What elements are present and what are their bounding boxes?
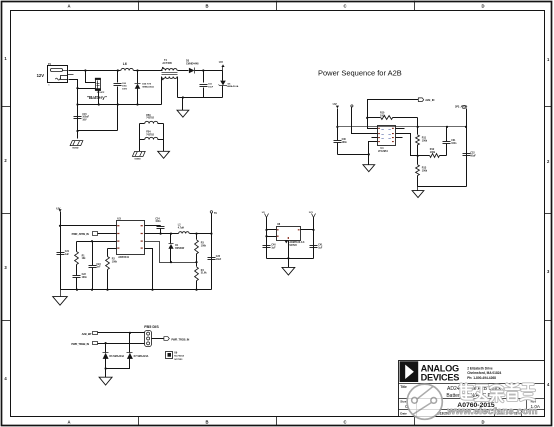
svg-text:100k: 100k bbox=[422, 170, 428, 173]
wire D7 drop bbox=[129, 333, 131, 353]
svg-text:DEVICES: DEVICES bbox=[421, 373, 460, 383]
svg-text:C: C bbox=[343, 419, 346, 424]
svg-text:Ph: 1-800-494-4268: Ph: 1-800-494-4268 bbox=[467, 376, 496, 380]
diode D1 bbox=[170, 234, 172, 244]
svg-text:742792: 742792 bbox=[146, 133, 154, 136]
svg-text:C15: C15 bbox=[82, 114, 87, 116]
svg-text:Size: Size bbox=[400, 400, 406, 404]
svg-text:742792: 742792 bbox=[146, 117, 154, 120]
wire LDO bottom rail bbox=[267, 258, 314, 260]
svg-text:PWR_TRGB_IN: PWR_TRGB_IN bbox=[71, 342, 89, 346]
svg-text:100k: 100k bbox=[112, 261, 118, 263]
ground U3 bbox=[60, 290, 62, 297]
diode D3 bbox=[189, 68, 195, 74]
svg-text:SOT23: SOT23 bbox=[289, 245, 297, 247]
node flag EN bbox=[351, 105, 353, 107]
wire pin3L stub bbox=[372, 137, 378, 139]
wire main rail pwrseq bbox=[338, 126, 467, 128]
svg-text:C41: C41 bbox=[318, 244, 323, 247]
capacitor C24 bbox=[160, 226, 162, 227]
svg-text:PWR_TRGB_IN: PWR_TRGB_IN bbox=[171, 337, 189, 341]
svg-text:ACT45B: ACT45B bbox=[162, 62, 172, 65]
svg-text:UV: UV bbox=[219, 60, 223, 64]
chassis ground 1 bbox=[70, 141, 83, 146]
svg-text:SOT353: SOT353 bbox=[174, 359, 183, 361]
wire T4 sec right down bbox=[177, 77, 179, 98]
svg-text:ADM7160-3.3: ADM7160-3.3 bbox=[289, 241, 305, 244]
resistor R10 bbox=[368, 117, 381, 119]
capacitor C61 bbox=[203, 71, 205, 83]
wire R10 down to rail bbox=[417, 118, 419, 129]
capacitor C60 bbox=[117, 71, 119, 83]
wire FB left bbox=[139, 124, 141, 140]
svg-text:100n: 100n bbox=[451, 143, 457, 145]
wire D6 to gnd bbox=[105, 359, 107, 378]
svg-text:C31: C31 bbox=[451, 140, 456, 142]
wire flag to U3 pin2 bbox=[98, 233, 117, 235]
svg-text:10uF: 10uF bbox=[216, 259, 222, 261]
svg-text:100n: 100n bbox=[342, 142, 348, 144]
diode D7 bbox=[127, 352, 133, 354]
svg-text:D6 SMAJ24A: D6 SMAJ24A bbox=[109, 355, 124, 358]
capacitor C41 bbox=[310, 245, 318, 247]
op-amp U3 buck regulator bbox=[117, 221, 145, 255]
wire pin3R stub bbox=[396, 137, 403, 139]
svg-text:LTC2954: LTC2954 bbox=[378, 150, 388, 153]
wire right rail bbox=[211, 214, 213, 290]
svg-text:1uF: 1uF bbox=[318, 247, 323, 249]
wire FB5 out bbox=[152, 338, 164, 340]
wire pin2R to node bbox=[396, 134, 418, 156]
svg-text:PWR_ATPB_IN: PWR_ATPB_IN bbox=[72, 232, 89, 236]
jumper FB5 header bbox=[145, 331, 152, 347]
op-amp U4 supervisor bbox=[378, 126, 396, 146]
svg-text:SGND: SGND bbox=[134, 159, 141, 161]
wire pin1R stub bbox=[396, 128, 405, 130]
svg-text:C21: C21 bbox=[65, 251, 70, 253]
wire input to U3 pin1 bbox=[61, 225, 117, 227]
wire gnd drop T4 bbox=[182, 98, 184, 111]
svg-text:100k: 100k bbox=[380, 114, 386, 117]
capacitor C31 bbox=[446, 127, 448, 142]
wire U8 out bbox=[301, 229, 314, 231]
wire flag2 to FB5 bbox=[98, 343, 145, 345]
ferrite FB3 bbox=[140, 123, 145, 125]
watermark chinese characters bbox=[460, 384, 534, 401]
wire U8 gnd pin bbox=[288, 241, 290, 268]
svg-text:C32: C32 bbox=[470, 153, 475, 155]
svg-text:C25: C25 bbox=[216, 256, 221, 258]
svg-text:L6: L6 bbox=[123, 62, 127, 66]
wire L2 to out bbox=[190, 233, 212, 235]
svg-text:3216FF: 3216FF bbox=[97, 92, 105, 94]
io flag A2B_IN bbox=[418, 98, 423, 102]
wire bottom rail U3 bbox=[61, 289, 212, 291]
resistor R2 bbox=[107, 249, 109, 257]
svg-text:ADP2441: ADP2441 bbox=[118, 256, 129, 259]
wire pin4L to gnd bbox=[369, 142, 378, 165]
title block frame bbox=[399, 361, 545, 417]
svg-text:D: D bbox=[481, 4, 484, 9]
inductor L2 bbox=[179, 232, 190, 234]
svg-text:100uF: 100uF bbox=[82, 117, 89, 119]
chassis ground 2 bbox=[132, 151, 145, 156]
wire lower return rail bbox=[178, 97, 223, 99]
resistor R1 bbox=[76, 242, 78, 252]
wire D6 drop bbox=[105, 344, 107, 353]
svg-text:100n: 100n bbox=[122, 86, 128, 88]
wire LDO left rail bbox=[266, 218, 268, 259]
ground pwrseq bottom bbox=[417, 187, 419, 191]
wire pin4R gnd bbox=[145, 249, 153, 290]
svg-text:Chelmsford, MA 01824: Chelmsford, MA 01824 bbox=[467, 371, 501, 375]
svg-text:A: A bbox=[67, 4, 70, 9]
capacitor C25 bbox=[208, 257, 216, 259]
connector P1 12V battery input bbox=[48, 66, 68, 83]
svg-text:12V: 12V bbox=[37, 73, 45, 78]
logo box U9 bbox=[166, 352, 173, 359]
svg-text:100n: 100n bbox=[82, 277, 88, 279]
svg-text:SGND: SGND bbox=[72, 148, 79, 150]
svg-text:C22: C22 bbox=[82, 274, 87, 276]
svg-text:B: B bbox=[205, 4, 208, 9]
wire T4 sec left to mid rail bbox=[161, 77, 163, 105]
resistor R4 bbox=[196, 263, 198, 267]
wire fb node bbox=[77, 241, 117, 243]
wire fuse to mid rail bbox=[98, 91, 100, 105]
svg-text:Date: Date bbox=[400, 411, 407, 415]
capacitor C15 bbox=[74, 116, 82, 118]
wire c60 bottom link bbox=[78, 130, 118, 132]
ground earth FB bbox=[158, 151, 170, 158]
ground earth T4 bbox=[177, 110, 189, 117]
svg-text:100n: 100n bbox=[155, 221, 161, 223]
svg-text:1uF: 1uF bbox=[271, 247, 276, 249]
svg-text:D24 TVS: D24 TVS bbox=[142, 83, 151, 86]
wire rail L6 to T4 bbox=[134, 70, 163, 72]
wire FB right bbox=[163, 124, 165, 140]
svg-text:D: D bbox=[481, 419, 484, 424]
svg-text:Power Sequence for A2B: Power Sequence for A2B bbox=[318, 69, 402, 78]
inductor L6 bbox=[121, 68, 133, 70]
watermark circle logo bbox=[407, 384, 442, 419]
svg-text:100k: 100k bbox=[201, 245, 207, 247]
diode D6 bbox=[103, 352, 109, 354]
svg-text:100k: 100k bbox=[422, 140, 428, 143]
svg-text:SMAJ5.0A: SMAJ5.0A bbox=[228, 85, 239, 88]
svg-text:31.6k: 31.6k bbox=[201, 273, 207, 275]
wire bottom rail pwrseq bbox=[418, 186, 467, 188]
wire D7 to gnd bbox=[106, 359, 130, 369]
svg-text:D7 SMAJ24A: D7 SMAJ24A bbox=[134, 355, 149, 358]
svg-text:5V: 5V bbox=[214, 212, 217, 215]
fuse F1 battery bbox=[86, 71, 96, 83]
op-amp U8 LDO bbox=[277, 227, 301, 241]
wire R2 to pin4 bbox=[108, 248, 117, 250]
wire LDO right rail bbox=[313, 218, 315, 259]
svg-text:100k: 100k bbox=[430, 151, 436, 154]
svg-text:1uF: 1uF bbox=[65, 254, 70, 256]
transformer T4 common-mode choke bbox=[162, 69, 178, 71]
svg-text:U3: U3 bbox=[117, 217, 121, 221]
ferrite FB4 bbox=[140, 139, 145, 141]
wire UV drop bbox=[337, 109, 339, 141]
resistor R12 bbox=[418, 155, 430, 157]
svg-text:A: A bbox=[67, 419, 70, 424]
wire P1 pin2 drop bbox=[69, 80, 78, 139]
svg-text:CMHD4448: CMHD4448 bbox=[186, 63, 199, 66]
capacitor C23 bbox=[92, 242, 94, 266]
logo Analog Devices bbox=[400, 361, 419, 382]
diode D5 zener bbox=[222, 71, 224, 81]
svg-text:B: B bbox=[205, 419, 208, 424]
svg-text:10uF: 10uF bbox=[470, 155, 476, 157]
capacitor C30 bbox=[334, 140, 342, 142]
ground FB5 bbox=[99, 377, 112, 385]
ground pwrseq left bbox=[363, 165, 375, 172]
diode D24 TVS bbox=[137, 71, 139, 84]
svg-text:www.elecfans.com: www.elecfans.com bbox=[446, 406, 537, 416]
svg-text:FB3: FB3 bbox=[146, 115, 151, 117]
svg-text:C23: C23 bbox=[96, 264, 101, 266]
svg-text:C: C bbox=[343, 4, 346, 9]
capacitor C40 bbox=[263, 245, 271, 247]
svg-text:B0530W: B0530W bbox=[175, 248, 185, 250]
wire top rail from P1 bbox=[69, 70, 121, 72]
capacitor C21 bbox=[57, 252, 65, 254]
io flag PWR_TRGB_IN right bbox=[164, 337, 169, 341]
wire mid return rail bbox=[78, 104, 162, 106]
wire to U8 en bbox=[267, 236, 277, 238]
resistor R3 bbox=[196, 234, 198, 240]
svg-text:16V: 16V bbox=[82, 119, 87, 121]
svg-text:SMBJ24CA: SMBJ24CA bbox=[142, 85, 154, 88]
wire EN drop bbox=[352, 107, 378, 134]
svg-text:FB5 DIS: FB5 DIS bbox=[144, 325, 159, 329]
svg-text:100V: 100V bbox=[122, 88, 128, 90]
svg-text:Title: Title bbox=[400, 385, 407, 389]
svg-text:C40: C40 bbox=[271, 244, 276, 247]
wire pin1L up out bbox=[368, 100, 419, 129]
wire sw node bbox=[145, 233, 179, 235]
svg-text:"Battery": "Battery" bbox=[87, 95, 107, 100]
wire fuse lower link bbox=[78, 88, 96, 90]
wire left rail U3 bbox=[60, 212, 62, 290]
svg-text:10uF: 10uF bbox=[208, 86, 214, 88]
wire rail D3 to UV bbox=[195, 70, 223, 72]
svg-text:4.7uH: 4.7uH bbox=[178, 226, 185, 229]
wire to U8 in bbox=[267, 229, 277, 231]
power flag UV 1 bbox=[222, 67, 224, 71]
svg-text:C30: C30 bbox=[342, 139, 347, 141]
wire flag1 to FB5 bbox=[98, 332, 145, 334]
wire pin1R bst bbox=[145, 225, 161, 227]
capacitor C22 bbox=[76, 265, 78, 276]
svg-text:A2B_BP: A2B_BP bbox=[82, 332, 92, 336]
svg-text:A2B_IN: A2B_IN bbox=[425, 98, 434, 102]
resistor R13 bbox=[417, 156, 419, 165]
wire c30 to gnd bbox=[338, 154, 369, 156]
capacitor C32 bbox=[463, 153, 471, 155]
svg-text:FB4: FB4 bbox=[146, 131, 151, 134]
resistor R11 bbox=[417, 127, 419, 135]
svg-text:C24: C24 bbox=[155, 217, 160, 220]
node flag 5V bbox=[210, 211, 212, 213]
svg-text:NC7SZ04: NC7SZ04 bbox=[174, 355, 184, 358]
svg-text:2 Elizabeth Drive: 2 Elizabeth Drive bbox=[467, 366, 493, 370]
wire right rail pwrseq bbox=[466, 127, 468, 187]
svg-text:1nF: 1nF bbox=[96, 267, 101, 269]
ground LDO bbox=[282, 267, 295, 275]
wire pin3R fb path bbox=[145, 242, 197, 263]
wire rail T4 to D3 bbox=[178, 70, 189, 72]
